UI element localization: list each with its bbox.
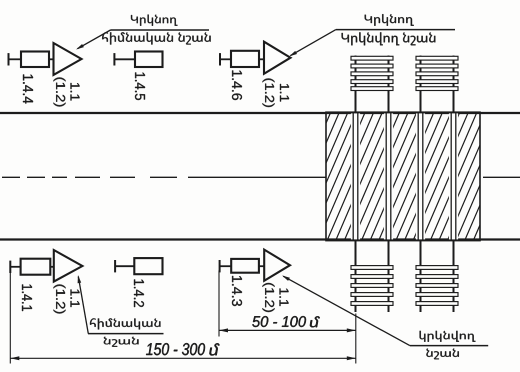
dimension line 150-300 m xyxy=(10,356,356,360)
sleepers below road, track 1 xyxy=(351,266,393,306)
sign 1.4.1 with warning sign 1.1(1.2) xyxy=(10,250,82,282)
sleepers above road, track 1 xyxy=(351,56,393,90)
callout rule (top-right) xyxy=(336,29,455,31)
label (1.2) (top-left sign) xyxy=(54,78,66,107)
sleepers above road, track 2 xyxy=(416,56,458,90)
dimension text 150 - 300 m xyxy=(146,343,219,355)
road center line (dashed then solid) xyxy=(2,176,327,178)
sleepers below road, track 2 xyxy=(416,266,458,306)
extension line left (from sign 1.4.1) xyxy=(9,272,11,364)
sign 1.4.3 with warning sign 1.1(1.2) xyxy=(220,250,290,281)
callout: duplicated sign (top-right) text line 1 xyxy=(365,14,414,26)
extension line right (from rail) xyxy=(355,314,357,364)
leader to sign 1.4.6 xyxy=(289,30,336,57)
label 1.4.5 xyxy=(135,73,145,101)
label 1.4.3 xyxy=(232,276,242,306)
rails above road xyxy=(356,56,454,114)
rails below road xyxy=(356,240,454,313)
crossing area border xyxy=(326,112,480,240)
callout: main sign (bottom-middle) text line 2 xyxy=(104,337,139,347)
road bottom edge xyxy=(0,238,520,240)
rails through crossing (double lines) xyxy=(353,112,456,240)
callout: duplicated sign (bottom-right) text line 2 xyxy=(426,349,458,360)
callout rule (bottom-right) xyxy=(410,345,488,347)
sign 1.4.4 with warning sign 1.1(1.2) xyxy=(9,43,82,75)
callout: repeating main sign (top-left) text line 1 xyxy=(131,15,177,26)
dimension text 50 - 100 m xyxy=(252,316,319,327)
dimension line 50-100 m xyxy=(219,328,356,332)
callout: repeating main sign (top-left) text line 2 xyxy=(102,32,210,44)
road top edge xyxy=(0,112,520,114)
label 1.1 (bottom-left sign) xyxy=(71,290,80,308)
callout rule (top-left) xyxy=(111,29,210,31)
label (1.2) (bottom-left sign) xyxy=(54,285,66,314)
label 1.1 (top-right sign) xyxy=(280,84,289,102)
road center line right of crossing xyxy=(483,176,520,178)
callout: main sign (bottom-middle) text line 1 xyxy=(90,318,160,329)
leader to sign 1.4.4 xyxy=(76,30,111,50)
label 1.1 (top-left sign) xyxy=(71,83,80,101)
callout rule (bottom-middle) xyxy=(88,333,164,335)
label (1.2) (top-right sign) xyxy=(263,79,275,108)
label 1.4.6 xyxy=(232,71,242,101)
label 1.4.4 xyxy=(23,75,33,104)
callout: duplicated sign (bottom-right) text line 1 xyxy=(420,331,476,342)
sign 1.4.6 with warning sign 1.1(1.2) xyxy=(220,42,291,74)
railway crossing hatched area xyxy=(266,110,520,242)
label 1.4.2 xyxy=(134,280,144,308)
label 1.1 (bottom-right sign) xyxy=(280,289,289,307)
label 1.4.1 xyxy=(22,285,32,312)
leader to sign 1.4.1 xyxy=(78,275,89,334)
rail gaps through crossing xyxy=(351,113,458,239)
label (1.2) (bottom-right sign) xyxy=(263,283,275,312)
sign 1.4.5 xyxy=(114,52,162,68)
callout: duplicated sign (top-right) text line 2 xyxy=(342,32,436,45)
extension line middle (from sign 1.4.3) xyxy=(218,271,220,337)
leader to sign 1.4.3 xyxy=(282,276,410,346)
sign 1.4.2 xyxy=(115,258,162,274)
